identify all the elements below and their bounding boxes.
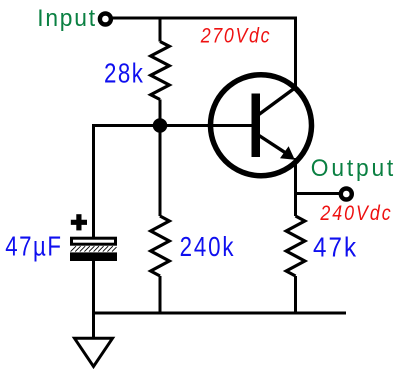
wire 28k top lead: [159, 18, 162, 42]
node A junction dot: [153, 118, 168, 133]
wire 28k bottom lead to node: [159, 100, 162, 125]
svg-text:240k: 240k: [180, 232, 236, 263]
capacitor C1 bottom plate: [70, 252, 117, 261]
wire base (node to transistor base): [94, 124, 254, 127]
wire output tap: [296, 192, 340, 195]
svg-text:47k: 47k: [313, 233, 358, 263]
ground: [75, 338, 113, 366]
wire 47k bottom lead: [294, 276, 297, 313]
resistor R1 28k: [151, 42, 170, 100]
svg-text:Output: Output: [311, 155, 396, 182]
svg-text:Input: Input: [37, 4, 97, 31]
capacitor C1 top plate: [72, 238, 116, 244]
wire capacitor to bottom bus: [92, 261, 95, 313]
wire 240k upper lead: [159, 126, 162, 217]
wire left branch down to capacitor: [92, 124, 95, 238]
wire 240k bottom lead: [159, 276, 162, 313]
wire ground lead: [92, 313, 95, 339]
svg-text:240Vdc: 240Vdc: [319, 202, 392, 226]
transistor Q1 circle: [211, 75, 312, 176]
wire emitter down: [294, 158, 297, 216]
transistor Q1 base bar: [252, 94, 261, 158]
resistor R3 47k: [286, 216, 305, 276]
capacitor C1 plus sign: [71, 214, 87, 230]
resistor R2 240k: [151, 216, 170, 276]
wire bottom bus: [94, 312, 347, 315]
transistor Q1 emitter line: [258, 135, 288, 154]
svg-text:270Vdc: 270Vdc: [200, 24, 271, 48]
transistor Q1 emitter arrowhead: [280, 146, 295, 160]
input terminal: [100, 14, 111, 25]
transistor Q1 collector line: [258, 88, 296, 116]
wire top bus: [113, 18, 296, 88]
svg-text:47µF: 47µF: [5, 231, 62, 262]
capacitor C1 hatch: [71, 246, 117, 251]
output terminal: [341, 189, 352, 200]
svg-text:28k: 28k: [104, 58, 144, 89]
